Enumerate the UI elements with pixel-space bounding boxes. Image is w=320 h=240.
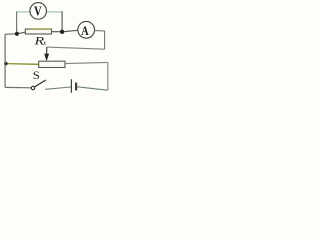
- wire outer left vertical: [4, 34, 6, 88]
- wire rheostat left lead olive: [6, 63, 39, 66]
- wire Rx right lead: [52, 31, 63, 33]
- wire Rx left lead: [17, 32, 25, 34]
- resistor Rx top edge olive tint: [30, 28, 51, 30]
- node junction dot lower-left: [4, 62, 8, 66]
- wire right vertical V branch: [61, 11, 63, 31]
- rheostat wiper arrowhead: [44, 54, 49, 62]
- wire voltmeter right lead: [47, 11, 63, 13]
- wire junction to ammeter: [64, 30, 78, 31]
- rheostat R box: [39, 61, 65, 67]
- wire bottom-left to switch: [5, 86, 31, 88]
- svg-text:S: S: [33, 68, 40, 82]
- ammeter U2 circle: [78, 21, 95, 38]
- switch S pivot circle: [31, 86, 34, 89]
- battery short thick plate: [75, 83, 77, 91]
- wire outer right vertical lower: [107, 62, 109, 90]
- svg-text:A: A: [81, 24, 89, 38]
- node junction dot left: [15, 32, 19, 36]
- voltmeter U1 circle: [30, 3, 47, 20]
- node junction dot right: [60, 30, 64, 34]
- wire switch to battery: [45, 87, 71, 89]
- wire ammeter right lead: [95, 30, 105, 32]
- wire rheostat right lead: [65, 62, 108, 63]
- wire wiper drop: [46, 47, 48, 54]
- wire wiper row: [47, 47, 105, 49]
- wire battery right lead: [77, 87, 108, 90]
- wire Rx row far-left segment: [5, 33, 17, 36]
- switch S lever: [35, 80, 46, 87]
- svg-text:V: V: [34, 3, 42, 19]
- battery long plate: [70, 79, 72, 93]
- wire right vertical ammeter to wiper row: [104, 31, 106, 49]
- resistor Rx box: [25, 29, 51, 34]
- wire left vertical V branch: [16, 11, 18, 33]
- wire top-left lead to voltmeter: [17, 11, 30, 13]
